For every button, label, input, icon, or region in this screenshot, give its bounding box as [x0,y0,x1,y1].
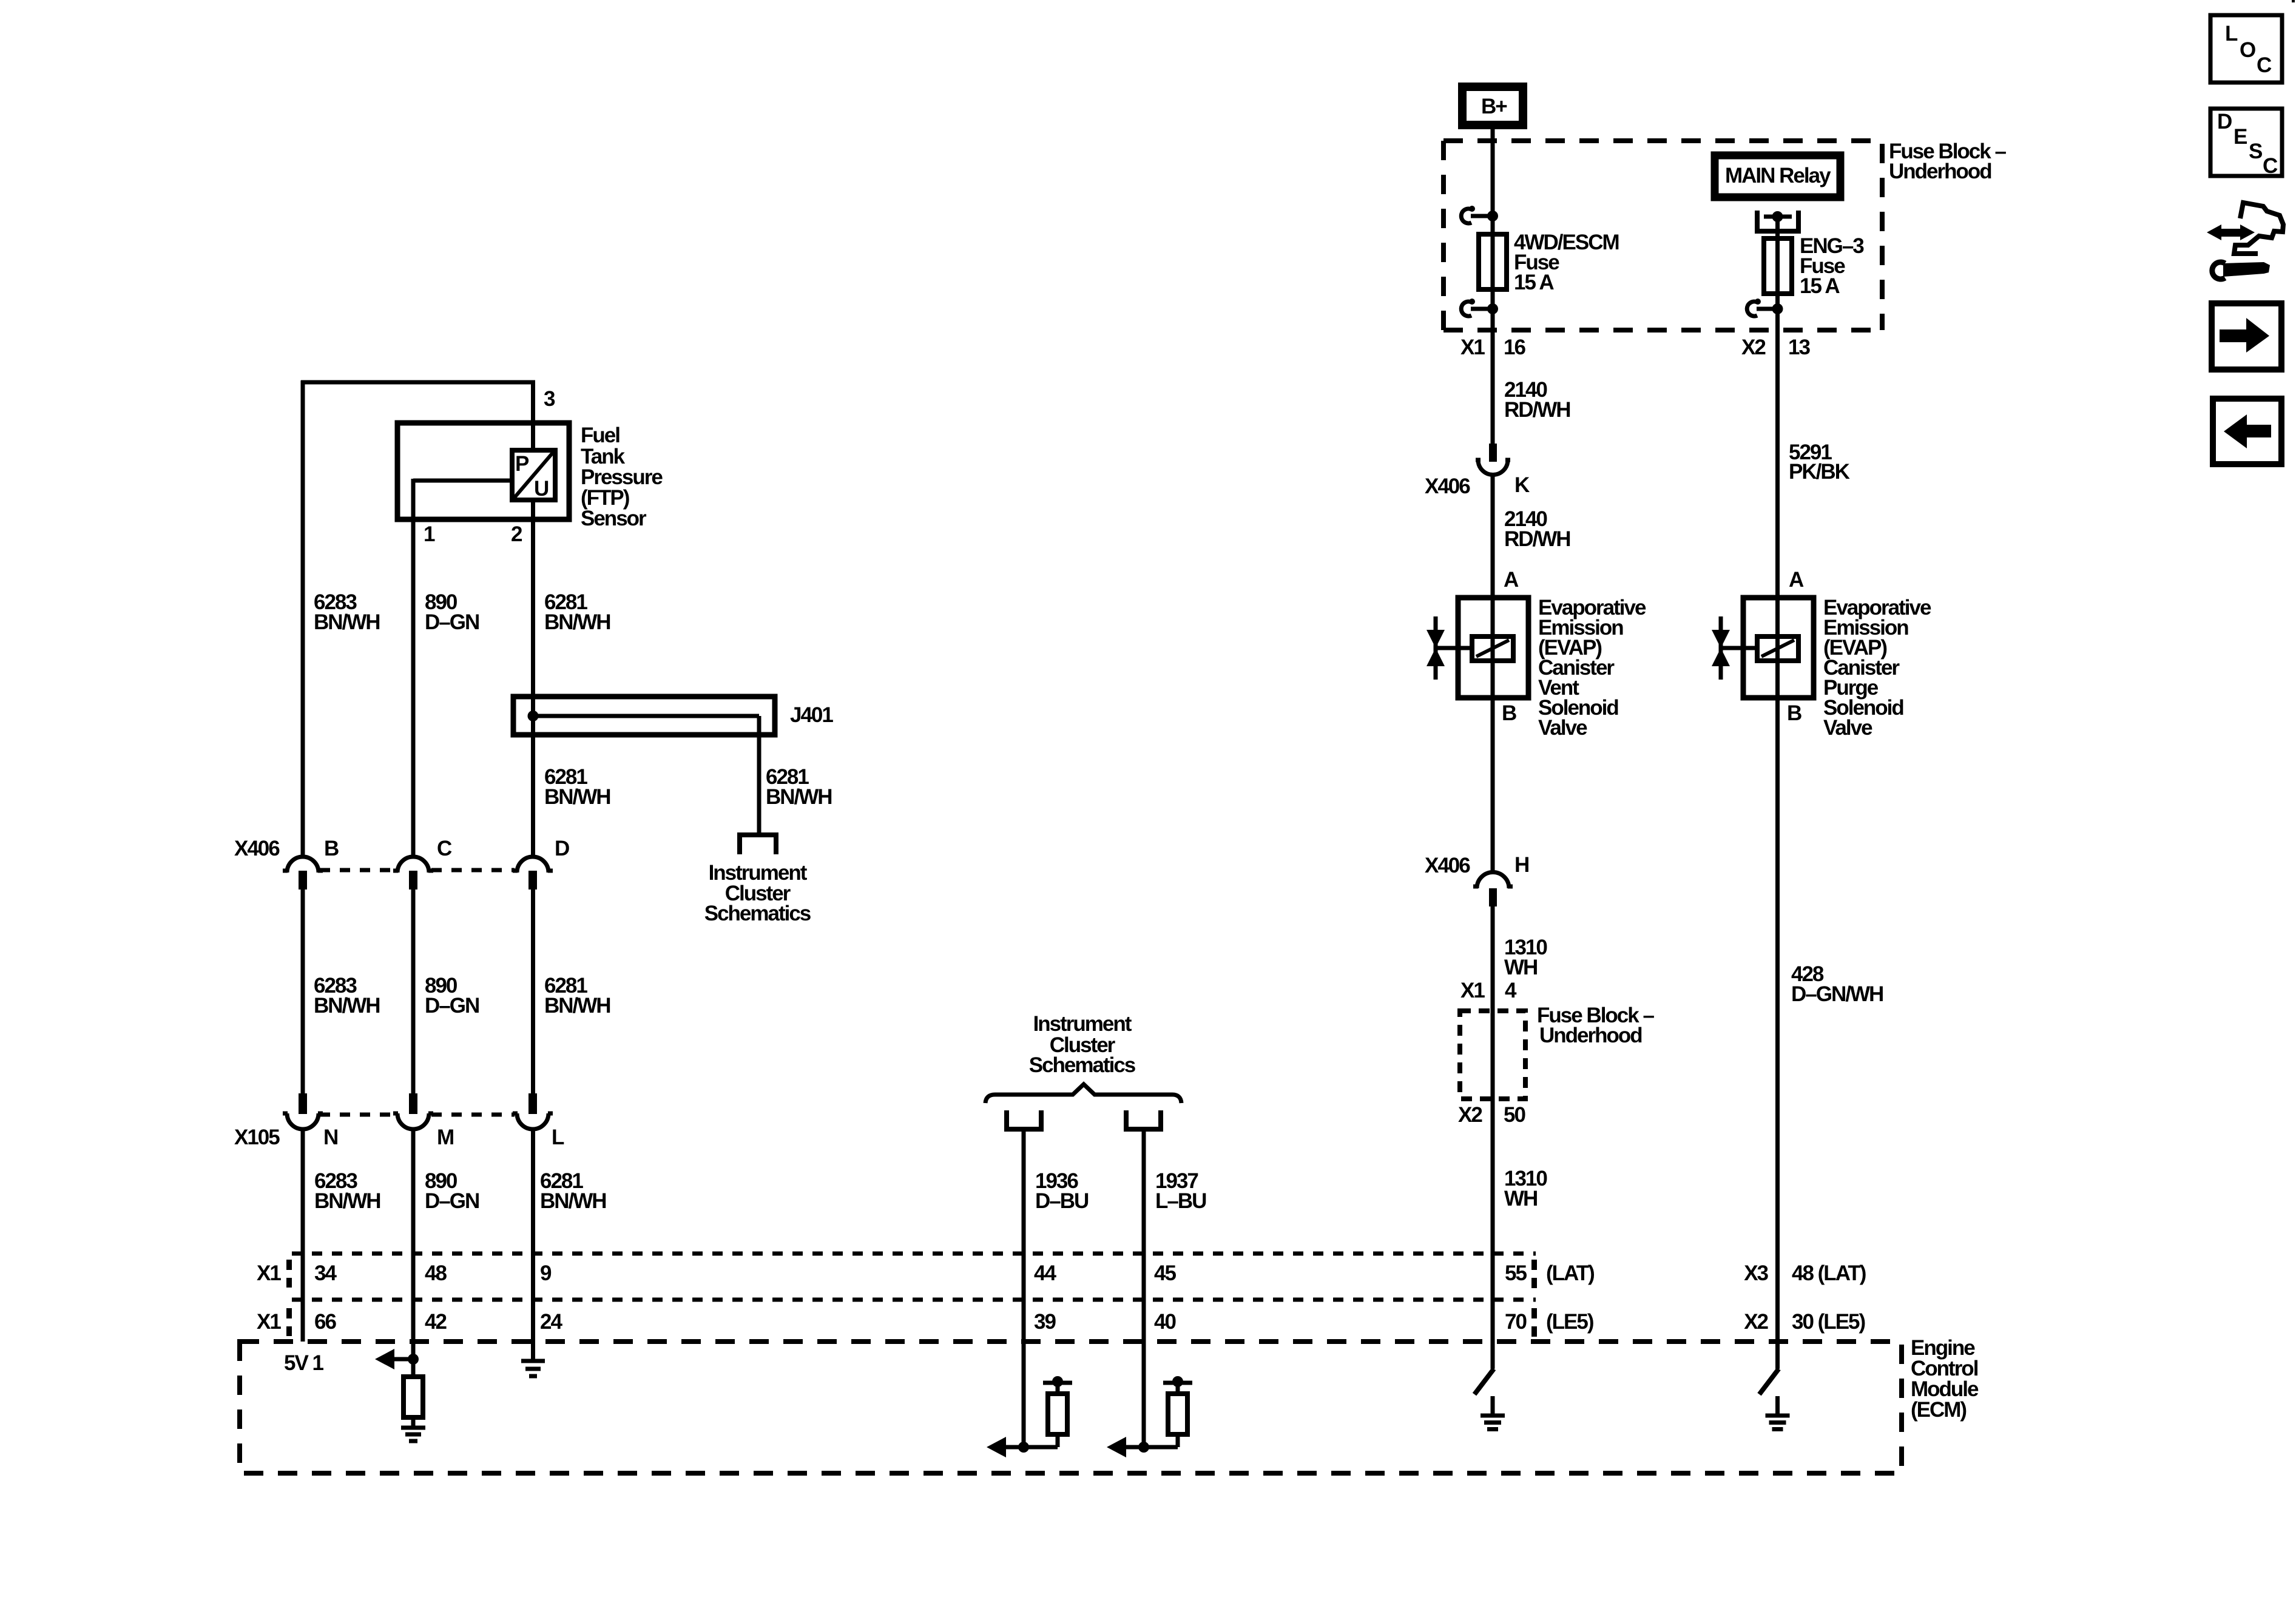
ECM internal arrow shaft at 890 [393,1357,413,1362]
ENG-3 fuse body [1764,238,1792,294]
forward arrow navigation box [2212,303,2281,370]
ECM internal arrow at 1937 [1107,1437,1126,1457]
wire 6283 column B upper segment [301,380,305,857]
wire 890 column C from pin 1 [411,479,416,857]
label ENG-3 Fuse 15 A [1800,234,1864,298]
wire 6283 column B mid segment [301,890,305,1096]
B+ power symbol box [1462,87,1523,125]
wire 6281 pin 2 drop [531,500,535,699]
label X1 16 [1460,336,1525,359]
Engine Control Module dashed box [240,1342,1902,1473]
connector X406 H half circle [1473,873,1513,907]
junction node above 4WD fuse [1487,211,1498,221]
connector X406 B half circle [283,857,323,890]
wire 890 column C lower segment [411,1129,416,1359]
fuse clip hook upper 4WD [1461,206,1475,223]
resistor top bar 1936 [1043,1381,1072,1385]
engine compartment icon wrench [2212,262,2270,279]
svg-text:C: C [2257,53,2272,77]
svg-text:D: D [2217,110,2232,133]
wire 1937 L-BU [1142,1129,1146,1447]
wire label 6283 BN/WH row1 [314,590,380,634]
off-page connector symbol wire 1936 [1004,1110,1044,1129]
off-page connector symbol wire 1937 [1124,1110,1163,1129]
vent valve flow symbol [1427,616,1445,680]
ECM internal resistor 1937 [1168,1394,1187,1434]
LOC letters [2225,22,2272,77]
resistor ground stem 890 [411,1417,416,1428]
junction node below ENG-3 fuse [1772,303,1783,314]
wire label 6281 BN/WH row2 [544,974,610,1018]
Fuse Block Underhood dashed box [1443,141,1882,330]
connector X105 L cup [513,1093,553,1129]
label 6281 BN/WH below J401 right branch [766,765,832,809]
wire label 428 D-GN/WH [1791,962,1883,1006]
fuse clip bar upper 4WD [1471,214,1493,218]
engine compartment icon double arrow [2207,224,2255,240]
svg-text:C: C [2263,154,2278,178]
resistor top stem 1936 [1056,1383,1060,1394]
wire label 890 D-GN row3 [425,1169,479,1213]
wire label 890 D-GN row2 [425,974,479,1018]
pressure sensor symbol diagonal [514,452,553,498]
connector X105 N cup [283,1093,323,1129]
fuse clip hook lower ENG-3 [1747,299,1761,316]
svg-text:E: E [2234,125,2247,149]
ECM switch purge column [1760,1369,1779,1394]
LOC navigation box [2210,15,2282,83]
junction node 890 ECM [408,1354,419,1365]
back arrow navigation box [2213,399,2281,464]
connector boundary dotted vertical row2 right [1531,1308,1537,1340]
4WD/ESCM fuse body [1479,234,1507,289]
wire 890 column C mid segment [411,890,416,1096]
wire label 5291 PK/BK [1789,441,1850,484]
EVAP vent solenoid valve box [1458,598,1528,698]
DESC navigation box [2210,109,2282,176]
purge valve pintle link [1721,646,1757,650]
label X2 50 [1458,1103,1525,1127]
wire top horizontal from node B column to FTP pin 3 [301,380,535,385]
ECM ground stem purge [1775,1396,1780,1416]
wire 6281 column D mid segment [531,890,535,1096]
ground symbol purge [1766,1416,1790,1430]
engine compartment icon outline [2234,203,2283,254]
wire FTP pin 1 horizontal [413,479,512,483]
connector X406 D half circle [513,857,553,890]
wire label 6283 BN/WH row2 [314,974,380,1018]
wire label 1936 D-BU [1035,1169,1089,1213]
fuse clip hook lower 4WD [1461,299,1475,316]
relay output node [1772,211,1783,222]
ECM connector row 2 dashed line [292,1298,1536,1302]
ECM internal arrow at 1936 [987,1437,1006,1457]
connector boundary dotted vertical row1 right [1531,1260,1537,1291]
wire through purge valve [1775,598,1780,698]
svg-text:L: L [2225,22,2238,46]
resistor top node 1936 [1052,1376,1063,1387]
MAIN Relay box [1715,155,1840,197]
junction node on 6281 inside J401 [528,711,539,721]
label Instrument Cluster Schematics (J401 branch) [704,861,811,925]
ECM ground stem vent [1491,1396,1495,1416]
EVAP purge solenoid valve box [1743,598,1814,698]
wire label 890 D-GN row1 [425,590,479,634]
resistor top stem 1937 [1176,1383,1180,1394]
brace over instrument cluster wires [985,1084,1181,1103]
fuse clip bar lower ENG-3 [1757,307,1777,311]
wire X406 H down [1491,906,1495,1369]
junction node below 4WD fuse [1487,303,1498,314]
connector X406 C half circle [393,857,433,890]
ECM switch vent column [1474,1369,1494,1394]
wire X406 K to vent valve [1491,475,1495,598]
connector boundary dotted vertical row2 left [286,1308,292,1336]
junction node 1937 ECM [1138,1442,1149,1453]
label Fuse Block - Underhood (top) [1889,140,2006,183]
wire 1936 D-BU [1022,1129,1026,1447]
off-page connector symbol to Instrument Cluster [737,835,778,854]
label Fuel Tank Pressure (FTP) Sensor [581,424,663,530]
label Engine Control Module (ECM) [1911,1336,1979,1422]
label 4WD/ESCM Fuse 15 A [1514,231,1619,294]
page corner mark [2292,0,2295,2]
pressure sensor P/U symbol box [512,450,555,500]
ECM internal arrow at 890 reference [375,1349,394,1369]
ECM connector row 1 dashed line [292,1252,1536,1256]
ground symbol vent [1481,1416,1505,1430]
splice pack J401 box [513,697,775,735]
wire 428 purge valve down [1775,698,1780,1369]
wire 6281 column D lower segment [531,1129,535,1361]
ECM internal resistor 1936 [1048,1394,1067,1434]
fuse clip bar lower 4WD [1471,307,1493,311]
ECM internal resistor 890 [403,1377,423,1417]
wire 890 to internal resistor [411,1359,416,1377]
wire relay to ENG-3 fuse [1775,217,1780,598]
purge valve flow symbol [1712,616,1730,680]
wire label 1310 WH upper [1504,936,1547,979]
wire label 1310 WH lower [1504,1167,1547,1210]
wire label 6281 BN/WH row1 [544,590,610,634]
ECM internal bottom link 1937 [1125,1434,1178,1447]
wire B+ feed down [1491,129,1495,444]
small Fuse Block Underhood dashed box [1460,1011,1525,1099]
ECM internal bottom link 1936 [1005,1434,1058,1447]
wire label 6283 BN/WH row3 [314,1169,380,1213]
J401 internal bus wire [533,714,760,718]
svg-text:O: O [2240,38,2255,62]
resistor top node 1937 [1172,1376,1183,1387]
back arrow [2224,414,2271,448]
ground symbol 890 [401,1428,425,1441]
Fuel Tank Pressure sensor box [397,423,569,519]
wire label 1937 L-BU [1155,1169,1206,1213]
vent valve pintle link [1436,646,1472,650]
wire label 2140 RD/WH upper [1504,378,1570,422]
wire label 2140 RD/WH lower [1504,507,1570,551]
wire through vent valve [1491,598,1495,698]
vent solenoid coil [1472,636,1513,661]
label Fuse Block - Underhood (small box) [1537,1004,1654,1047]
wire 6281 column D through J401 [531,697,535,857]
junction node 1936 ECM [1018,1442,1029,1453]
resistor top bar 1937 [1163,1381,1192,1385]
ground symbol 6281 column D [521,1361,545,1376]
wire 6281 branch drop from J401 [757,716,761,833]
relay output bar [1764,215,1792,219]
svg-text:S: S [2249,140,2262,163]
DESC letters [2217,110,2278,178]
wire FTP pin 3 drop [531,382,535,451]
connector X105 M cup [393,1093,433,1129]
connector boundary dotted vertical row1 left [286,1260,292,1288]
label Instrument Cluster Schematics (middle) [1029,1012,1136,1077]
label 6281 BN/WH below J401 left [544,765,610,809]
forward arrow [2220,318,2269,353]
purge solenoid coil [1757,636,1798,661]
label Evaporative Emission (EVAP) Canister Purge Solenoid Valve [1823,596,1931,740]
label X1 4 [1460,979,1517,1002]
wire 6283 column B lower segment [301,1129,305,1342]
wire label 6281 BN/WH row3 [540,1169,606,1213]
relay output terminal bracket [1755,211,1801,231]
X406 connector dashed face line [320,868,515,873]
label X2 13 [1741,336,1810,359]
label Evaporative Emission (EVAP) Canister Vent Solenoid Valve [1538,596,1646,740]
wire 1310 WH vent valve down [1491,698,1495,874]
connector X406 K cup [1476,444,1510,474]
X105 connector dashed face line [320,1113,515,1117]
